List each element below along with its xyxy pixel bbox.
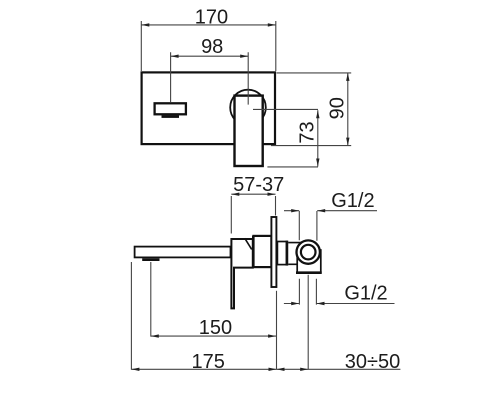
side view connection outer circle	[297, 240, 320, 263]
svg-text:175: 175	[192, 351, 225, 373]
wall face extension line	[276, 291, 278, 370]
svg-text:G1/2: G1/2	[331, 190, 374, 212]
dimension 73 extension lines	[253, 109, 318, 166]
svg-text:73: 73	[297, 121, 319, 143]
dimension G1/2 top leaders	[284, 210, 377, 212]
side view valve body	[254, 236, 272, 267]
dimension 90 line	[347, 73, 349, 146]
dimension 175 and 30-50 line	[131, 368, 400, 370]
front view wall plate	[142, 72, 275, 144]
side view in-wall body back edge	[286, 241, 289, 266]
svg-text:150: 150	[199, 317, 232, 339]
connection center line	[307, 275, 309, 370]
dimension 170 extension lines	[141, 21, 275, 71]
front view aerator slot	[162, 115, 180, 118]
svg-text:30÷50: 30÷50	[345, 351, 400, 373]
dimension G1/2 top extension lines	[299, 211, 317, 241]
svg-text:170: 170	[195, 7, 228, 29]
side view elbow bottom edge	[296, 271, 322, 274]
dimension 57-37 line	[231, 193, 275, 195]
side view cartridge ring	[252, 236, 255, 268]
side view wall plate	[271, 217, 276, 287]
side view connection inner circle	[301, 245, 316, 260]
front view handle rosette circle	[230, 90, 266, 126]
side view lever handle and hub	[231, 239, 252, 308]
dimension 57-37 extension lines	[231, 196, 275, 234]
side view spout	[135, 247, 231, 258]
svg-text:98: 98	[201, 36, 223, 58]
dimension 175 extension line	[130, 262, 132, 370]
side view connector neck	[288, 243, 301, 265]
dimension 150 line	[151, 335, 276, 337]
dimension 90 extension lines	[271, 73, 351, 146]
dimension 98 extension lines	[171, 52, 249, 104]
front view spout outlet	[155, 103, 186, 114]
side view elbow fitting body	[297, 250, 321, 273]
side view aerator	[142, 258, 159, 261]
svg-text:G1/2: G1/2	[344, 283, 387, 305]
dimension 98 line	[171, 55, 249, 57]
front view lever handle	[235, 96, 263, 166]
dimension G1/2 bottom leaders	[284, 303, 395, 305]
side view lever edge diagonal	[245, 238, 252, 249]
side view in-wall body	[277, 242, 287, 265]
dimension 170 line	[141, 24, 275, 26]
dimension 150 extension line	[150, 262, 152, 337]
svg-text:90: 90	[327, 97, 349, 119]
dimension G1/2 bottom extension lines	[299, 279, 316, 305]
svg-text:57-37: 57-37	[233, 174, 284, 196]
dimension 73 line	[317, 110, 319, 166]
